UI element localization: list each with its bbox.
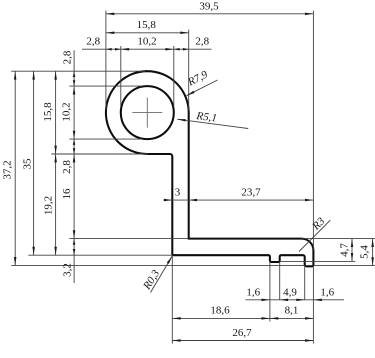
svg-text:16: 16	[61, 188, 73, 200]
extension line flange top left	[69, 238, 188, 240]
extension line lip left vertical	[304, 266, 306, 300]
svg-text:10,2: 10,2	[61, 102, 73, 121]
leader R3 fillet radius	[299, 215, 330, 252]
dimension 4,7	[338, 239, 353, 262]
extension line part right edge vertical lower	[312, 266, 314, 344]
extension line lip bottom left	[11, 265, 305, 267]
dimension chain 1,6 4,9 1,6 bottom	[246, 286, 345, 301]
extension line rib left vertical	[269, 261, 271, 321]
svg-text:5,4: 5,4	[359, 245, 371, 259]
svg-text:39,5: 39,5	[199, 1, 219, 13]
svg-text:1,6: 1,6	[320, 286, 334, 298]
extension line wall right vertical	[188, 30, 190, 111]
extension line wall left vertical lower	[171, 255, 173, 343]
svg-text:8,1: 8,1	[285, 305, 299, 317]
extension line part left edge vertical	[105, 11, 107, 110]
svg-text:19,2: 19,2	[43, 196, 55, 215]
svg-text:2,8: 2,8	[86, 36, 100, 48]
dimension column 2,8 10,2 2,8 16 3,2	[61, 50, 76, 283]
extension line rib bottom right	[280, 260, 356, 262]
extension line part right edge vertical upper	[312, 11, 314, 251]
svg-text:37,2: 37,2	[1, 160, 13, 179]
svg-text:26,7: 26,7	[232, 327, 252, 339]
svg-text:4,7: 4,7	[338, 243, 350, 257]
extension line flange bottom left	[28, 254, 172, 256]
extension line circle top	[11, 70, 145, 72]
leader R7,9 outer radius	[185, 68, 217, 95]
leader R5,1 hole radius	[177, 110, 248, 129]
profile outline of extrusion cross-section	[106, 71, 314, 266]
dimension chain 2,8 10,2 2,8 top	[82, 36, 212, 51]
dimension 15,8 outer diameter horizontal	[106, 19, 189, 34]
svg-text:4,9: 4,9	[283, 286, 297, 298]
extension line hole left vertical	[120, 46, 122, 106]
dimension 35	[21, 71, 35, 255]
extension line flange top right	[302, 238, 375, 240]
svg-text:2,8: 2,8	[195, 36, 209, 48]
dimension 37,2 overall height	[1, 71, 16, 265]
svg-text:15,8: 15,8	[42, 102, 54, 122]
dimension 15,8 vertical and 19,2	[42, 71, 57, 255]
dimension 26,7	[172, 327, 313, 342]
svg-text:15,8: 15,8	[137, 19, 157, 31]
svg-text:18,6: 18,6	[210, 305, 230, 317]
center mark crosshair	[132, 98, 162, 128]
svg-text:2,8: 2,8	[61, 50, 73, 64]
svg-text:23,7: 23,7	[241, 186, 261, 198]
extension line rib right vertical	[279, 261, 281, 299]
extension line hole bottom	[69, 138, 142, 140]
dimension 3 wall thickness and 23,7	[163, 186, 313, 201]
svg-text:10,2: 10,2	[137, 36, 156, 48]
inner hole circle R5,1	[121, 86, 174, 139]
extension line hole right vertical	[173, 46, 175, 106]
dimension 18,6 and 8,1	[172, 305, 313, 320]
svg-text:35: 35	[21, 158, 33, 170]
svg-text:3,2: 3,2	[61, 263, 73, 277]
extension line hole top	[69, 85, 142, 87]
extension line lip bottom right	[313, 265, 375, 267]
svg-text:3: 3	[175, 186, 181, 198]
extension line circle bottom tangent	[51, 153, 148, 155]
dimension 39,5 overall width	[106, 1, 314, 16]
svg-text:1,6: 1,6	[246, 286, 260, 298]
svg-text:2,8: 2,8	[61, 160, 73, 174]
dimension 5,4	[359, 239, 374, 266]
leader R0,3 corner radius	[141, 256, 173, 293]
